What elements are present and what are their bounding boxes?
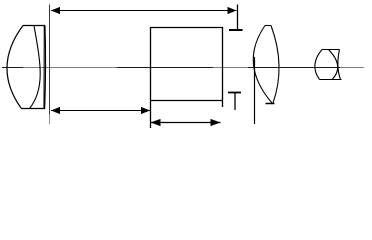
lens L2 right surface — [271, 26, 279, 104]
box B1 left edge (extended below) — [150, 27, 152, 128]
lens L2 left surface — [253, 26, 272, 104]
dimension D2 left arrowhead — [51, 107, 60, 114]
extension line fading tail — [49, 114, 51, 124]
lens L2 top edge — [265, 25, 271, 27]
box B1 right edge (extended below) — [222, 27, 224, 107]
lens L3 interface rear — [338, 50, 341, 80]
optical axis black segment 1 — [2, 67, 23, 69]
stop line at lens L2 — [254, 57, 256, 124]
box B1 bottom edge — [150, 100, 223, 102]
dimension D3 left arrowhead — [151, 119, 161, 126]
lens L3 interface front — [329, 50, 338, 80]
dimension D2 right arrowhead — [141, 107, 150, 114]
box B1 top edge — [150, 27, 223, 29]
optical axis grey segment 2 — [23, 67, 117, 69]
dimension D2 lower-left line — [51, 110, 150, 112]
lens L2 bottom tick — [266, 103, 275, 105]
image plane marker upper bar — [229, 29, 243, 31]
dimension D1 top line — [51, 10, 237, 12]
optical axis black segment 3 — [117, 67, 213, 69]
image plane marker lower (T) bar — [228, 92, 241, 94]
dimension D3 right arrowhead — [211, 119, 221, 126]
image plane marker upper (inverted T) stem — [237, 5, 239, 30]
optical axis grey segment 6 — [340, 67, 364, 69]
lens L1 cemented interface — [30, 26, 41, 109]
image plane marker lower stem — [234, 93, 236, 111]
dimension D1 right arrowhead — [228, 7, 237, 14]
lens L3 left surface — [315, 50, 322, 80]
lens L1 rear element left line — [43, 26, 45, 109]
dimension D3 below box line — [151, 122, 221, 124]
lens L1 bottom edge — [21, 108, 45, 110]
lens L1 left convex surface — [7, 26, 23, 109]
lens L3 bottom edge — [320, 79, 342, 81]
lens L1 rear element right surface — [44, 26, 47, 109]
lens L1 (left doublet) top edge — [23, 25, 45, 27]
dimension D1 left arrowhead — [51, 7, 60, 14]
lens L3 (right doublet) top edge — [322, 49, 340, 51]
extension line at lens exit — [49, 5, 51, 115]
optical axis black segment 5 — [248, 67, 340, 69]
optical axis grey segment 4 — [213, 67, 248, 69]
